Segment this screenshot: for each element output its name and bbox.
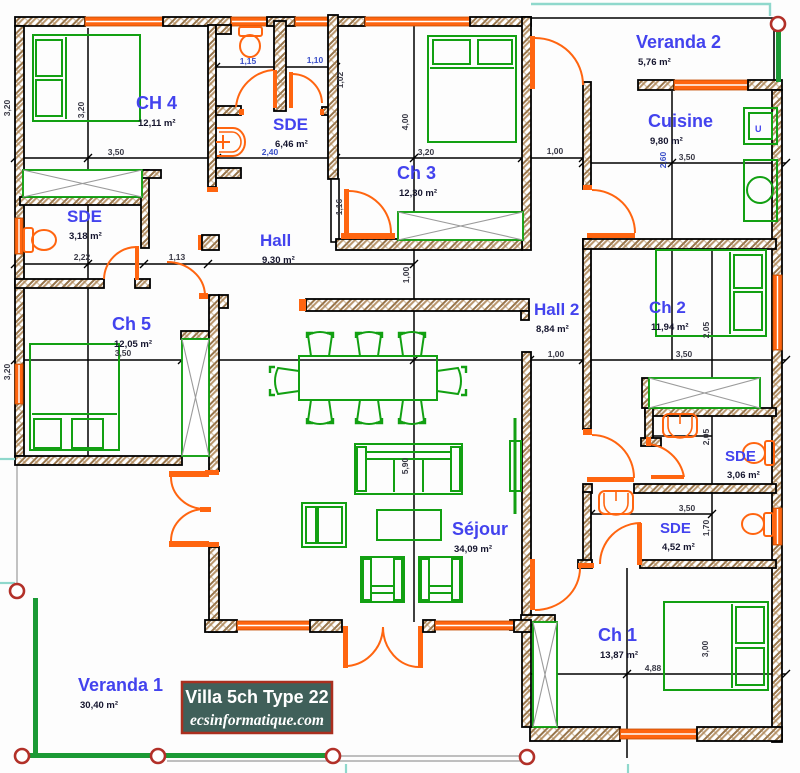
door arc main entrance xyxy=(535,38,583,85)
window Ch2 right wall xyxy=(773,275,782,350)
teal tick bottom 2 xyxy=(627,764,629,773)
wall Ch5 bottom xyxy=(15,456,182,465)
door cap Ch5 xyxy=(199,293,208,299)
svg-text:Ch 2: Ch 2 xyxy=(649,298,686,317)
svg-text:3,20: 3,20 xyxy=(2,99,12,116)
pillar lobby xyxy=(198,235,202,250)
svg-text:1,70: 1,70 xyxy=(701,519,711,536)
dimension line y436 nook xyxy=(653,435,712,437)
toilet SDE452 xyxy=(764,513,773,536)
wall basin nook left xyxy=(645,408,653,440)
wall outer top segment C xyxy=(267,17,295,26)
svg-text:4,88: 4,88 xyxy=(645,663,662,673)
teal tick left upper xyxy=(0,458,15,460)
wall Hall2 / Sejour divider xyxy=(306,299,529,311)
svg-text:Veranda 2: Veranda 2 xyxy=(636,32,721,52)
svg-text:Ch 5: Ch 5 xyxy=(112,314,151,334)
TV unit Sejour xyxy=(514,418,517,514)
wall Ch3 right xyxy=(522,17,531,250)
svg-text:3,50: 3,50 xyxy=(679,152,696,162)
wall cuisine top right xyxy=(748,80,782,90)
wall veranda2 edge line xyxy=(531,17,774,19)
door arc Ch5 xyxy=(167,262,205,295)
svg-text:1,16: 1,16 xyxy=(334,198,344,215)
svg-text:Veranda 1: Veranda 1 xyxy=(78,675,163,695)
svg-text:ecsinformatique.com: ecsinformatique.com xyxy=(190,712,324,729)
svg-text:Villa 5ch Type 22: Villa 5ch Type 22 xyxy=(185,687,328,707)
door arc cuisine xyxy=(592,190,635,233)
wall hall top stub left xyxy=(216,168,241,178)
window Ch5 left wall xyxy=(15,364,23,404)
svg-text:Hall: Hall xyxy=(260,231,291,250)
door arc SDE left room xyxy=(104,247,136,279)
wall Ch3 bottom xyxy=(336,239,522,250)
wall Sejour east xyxy=(522,352,531,620)
wall SDE452 bottom left bit xyxy=(578,560,592,568)
dining chair right xyxy=(437,368,461,394)
svg-text:3,18 m²: 3,18 m² xyxy=(69,231,102,242)
wall Ch1 closet top stub xyxy=(521,615,555,625)
kitchen counter appliance xyxy=(744,108,777,144)
column circle Ch1 corner xyxy=(520,750,534,764)
svg-text:3,50: 3,50 xyxy=(676,349,693,359)
wall SDE306 bottom xyxy=(634,484,776,493)
window SDE top left xyxy=(231,17,267,26)
window Ch3 top xyxy=(365,17,470,26)
wall outer left xyxy=(15,26,24,456)
wall outer top segment A xyxy=(15,17,85,26)
wall cuisine top left xyxy=(638,80,674,90)
bed CH4 xyxy=(33,35,140,121)
svg-text:Ch 3: Ch 3 xyxy=(397,163,436,183)
column circle veranda1 bottom-right xyxy=(326,749,340,763)
wall SDE bottom right bit xyxy=(135,279,150,288)
bed Ch5 xyxy=(30,344,119,450)
door leaf main entrance xyxy=(530,36,535,89)
svg-text:1,00: 1,00 xyxy=(547,146,564,156)
door leaf SDE452 xyxy=(637,523,642,565)
dimension line y67 toilet nook xyxy=(216,66,336,68)
door arc SDE shower xyxy=(293,74,322,103)
svg-text:9,30 m²: 9,30 m² xyxy=(262,255,295,266)
column circle veranda2 xyxy=(771,17,785,31)
wall Ch1 bottom right xyxy=(697,727,782,741)
svg-text:2,05: 2,05 xyxy=(701,428,711,445)
wall outer top segment B xyxy=(163,17,231,26)
dining chair left xyxy=(275,368,299,394)
armchair Sejour right-facing xyxy=(302,503,346,547)
wall basin nook bottom stub xyxy=(641,438,661,446)
wall SDE interior divider xyxy=(274,21,286,111)
door leaf basin nook xyxy=(651,475,684,479)
svg-text:3,50: 3,50 xyxy=(108,147,125,157)
dimension line y674 ch1 xyxy=(527,673,786,675)
svg-text:30,40 m²: 30,40 m² xyxy=(80,700,118,711)
wall outer top segment E xyxy=(470,17,531,26)
wall Hall2 divider tab xyxy=(521,311,529,320)
door arc SDE toilet nook xyxy=(236,70,273,107)
window CH4 top xyxy=(85,17,163,26)
svg-text:Cuisine: Cuisine xyxy=(648,111,713,131)
extension line gray x17 xyxy=(16,465,18,584)
wall Sejour west lower xyxy=(209,547,219,632)
door arc SDE452 xyxy=(600,523,641,564)
green wall veranda2 right xyxy=(776,30,781,82)
window cuisine top xyxy=(674,80,748,90)
door arc Ch1 xyxy=(535,568,580,610)
svg-text:2,40: 2,40 xyxy=(262,147,279,157)
double door Sejour bottom xyxy=(348,627,383,666)
toilet SDE306 xyxy=(765,441,774,465)
door arc corridor SDE xyxy=(592,435,634,478)
svg-text:3,20: 3,20 xyxy=(2,363,12,380)
extension line vertical x712 xyxy=(711,247,713,562)
door leaf SDE left room xyxy=(135,246,139,280)
wardrobe Ch1 closet xyxy=(533,622,557,727)
wardrobe CH4 xyxy=(23,170,142,197)
coffee table Sejour xyxy=(377,510,441,540)
svg-text:3,50: 3,50 xyxy=(115,348,132,358)
svg-text:11,94 m²: 11,94 m² xyxy=(651,322,689,333)
washbasin nook SDE306 xyxy=(663,414,697,437)
svg-text:U: U xyxy=(755,124,762,134)
bed Ch1 xyxy=(664,602,768,690)
toilet SDE top xyxy=(239,27,262,36)
wall Sejour west upper xyxy=(209,295,219,471)
bed Ch2 xyxy=(656,250,766,336)
svg-text:1,02: 1,02 xyxy=(335,71,345,88)
wall stub top of SDE xyxy=(216,25,231,34)
toilet SDE left xyxy=(24,228,33,252)
door arc basin nook xyxy=(647,444,684,477)
svg-text:8,84 m²: 8,84 m² xyxy=(536,324,569,335)
gray line bottom right of veranda xyxy=(334,755,530,757)
dimension line y360 middle xyxy=(15,359,786,361)
svg-text:3,00: 3,00 xyxy=(700,640,710,657)
wall Sejour SE stub xyxy=(510,620,522,630)
svg-text:12,30 m²: 12,30 m² xyxy=(399,188,437,199)
svg-text:1,10: 1,10 xyxy=(307,55,324,65)
wall Sejour bottom mid xyxy=(310,620,342,632)
wall SDE left room bottom xyxy=(15,279,104,288)
svg-text:2,05: 2,05 xyxy=(701,321,711,338)
washbasin SDE top xyxy=(217,128,245,156)
svg-text:2,22: 2,22 xyxy=(74,252,91,262)
svg-text:3,50: 3,50 xyxy=(679,503,696,513)
wall Ch1 left xyxy=(522,625,531,727)
svg-text:SDE: SDE xyxy=(660,520,691,537)
svg-text:3,06 m²: 3,06 m² xyxy=(727,470,760,481)
svg-text:SDE: SDE xyxy=(67,207,102,226)
sofa Sejour large xyxy=(355,444,462,494)
dining chairs top xyxy=(308,332,332,356)
title box villa xyxy=(182,682,332,733)
wall Sejour bottom right bit xyxy=(423,620,435,632)
dimension line y157 top rooms xyxy=(15,157,583,159)
svg-text:Séjour: Séjour xyxy=(452,519,508,539)
wall Ch5 wardrobe niche top xyxy=(181,331,209,339)
wall outer top segment D xyxy=(331,17,365,26)
window Ch1 bottom xyxy=(620,729,697,739)
wall cuisine left xyxy=(583,82,591,189)
washbasin SDE452 xyxy=(599,491,633,514)
teal roof line veranda2 xyxy=(531,4,770,16)
svg-text:9,80 m²: 9,80 m² xyxy=(650,136,683,147)
teal tick left lower xyxy=(0,582,15,584)
column circle veranda1 bottom-left xyxy=(15,749,29,763)
wall Sejour west step xyxy=(219,295,228,308)
extension line vertical x672 xyxy=(671,91,673,360)
svg-text:5,90: 5,90 xyxy=(400,457,410,474)
door leaf Ch3 xyxy=(344,189,349,234)
window Sejour bottom xyxy=(237,621,310,630)
wall SDE452 left xyxy=(583,492,591,567)
svg-text:12,11 m²: 12,11 m² xyxy=(138,118,176,129)
wall outer right xyxy=(772,90,782,742)
armchair Sejour bottom 2 xyxy=(419,557,462,602)
svg-text:6,46 m²: 6,46 m² xyxy=(275,139,308,150)
armchair Sejour bottom 1 xyxy=(361,557,404,602)
wardrobe Ch2 xyxy=(649,378,760,408)
door arc Ch3 xyxy=(349,191,391,233)
svg-text:4,00: 4,00 xyxy=(400,113,410,130)
green edge veranda1 bottom xyxy=(22,753,334,758)
column circle veranda1 top xyxy=(10,584,24,598)
extension line vertical x88 xyxy=(87,28,89,458)
wall stub left of Ch2 wardrobe xyxy=(642,378,649,408)
teal tick bottom 1 xyxy=(345,764,347,773)
wall SDE toilet nook stub xyxy=(216,106,241,115)
svg-text:1,15: 1,15 xyxy=(240,56,257,66)
svg-text:1,00: 1,00 xyxy=(548,349,565,359)
door leaf SDE shower xyxy=(289,72,293,108)
door leaf Sejour double door right xyxy=(418,626,423,668)
svg-text:13,87 m²: 13,87 m² xyxy=(600,650,638,661)
door leaf Ch1 xyxy=(530,559,535,610)
extension line vertical x627 xyxy=(626,568,628,758)
window SDE right wall xyxy=(773,508,782,545)
dimension line y162 cuisine xyxy=(583,162,786,164)
dimension line gray y761 xyxy=(167,760,530,762)
window SDE top right xyxy=(295,17,331,26)
svg-text:4,52 m²: 4,52 m² xyxy=(662,542,695,553)
bed Ch3 xyxy=(428,36,516,142)
svg-text:3,20: 3,20 xyxy=(418,147,435,157)
wall stub right of SDE xyxy=(141,170,161,178)
window SDE left wall xyxy=(15,218,23,254)
dimension line y514 sde xyxy=(591,513,712,515)
svg-text:5,76 m²: 5,76 m² xyxy=(638,57,671,68)
wardrobe Ch3 xyxy=(398,212,523,240)
door threshold Ch3 xyxy=(341,233,395,239)
wall SDE shower stub xyxy=(322,107,337,115)
svg-text:2,60: 2,60 xyxy=(658,151,668,168)
door leaf Sejour double door left xyxy=(343,626,348,668)
svg-text:SDE: SDE xyxy=(725,448,756,465)
wall CH4/SDE divider xyxy=(208,25,216,187)
extension line vertical x414 xyxy=(413,26,415,622)
wall Ch2 left xyxy=(583,239,591,429)
door leaf SDE toilet nook xyxy=(273,70,277,108)
wall Sejour SE corner xyxy=(514,620,531,632)
svg-text:1,13: 1,13 xyxy=(169,252,186,262)
door frame cap french door top xyxy=(205,470,219,475)
green edge veranda1 left xyxy=(33,598,38,756)
wall Ch2 top xyxy=(583,239,776,249)
wall SDE452 bottom xyxy=(640,560,776,568)
svg-text:CH 4: CH 4 xyxy=(136,93,177,113)
french door Sejour west xyxy=(169,471,209,477)
door frame cap french door bottom xyxy=(209,542,219,547)
door leaf cuisine xyxy=(587,233,635,238)
window Sejour bottom large xyxy=(435,621,514,630)
dining table xyxy=(299,356,437,400)
kitchen washer xyxy=(744,160,777,221)
svg-text:Hall 2: Hall 2 xyxy=(534,300,579,319)
wall Ch1 bottom left xyxy=(530,727,620,741)
wall Sejour bottom left segment xyxy=(205,620,237,632)
door frame cap CH4 lobby xyxy=(207,187,218,192)
wall SDE306 bottom left bit xyxy=(583,484,592,493)
svg-text:34,09 m²: 34,09 m² xyxy=(454,544,492,555)
wall Ch2 bottom / wardrobe wall xyxy=(645,408,776,416)
column circle veranda1 bottom-mid xyxy=(151,749,165,763)
wall Ch3 left lower xyxy=(331,179,339,242)
svg-text:Ch 1: Ch 1 xyxy=(598,625,637,645)
wardrobe Ch5 xyxy=(182,339,209,456)
svg-text:3,20: 3,20 xyxy=(76,101,86,118)
wall SDE/Ch3 divider xyxy=(328,15,338,179)
svg-text:1,00: 1,00 xyxy=(401,266,411,283)
svg-text:SDE: SDE xyxy=(273,115,308,134)
door leaf corridor SDE xyxy=(587,477,634,482)
wall SDE left room right xyxy=(141,170,149,248)
dining chairs bottom xyxy=(308,400,332,424)
dimension line y264 hall xyxy=(15,263,414,265)
wall SDE left room top xyxy=(20,197,142,205)
